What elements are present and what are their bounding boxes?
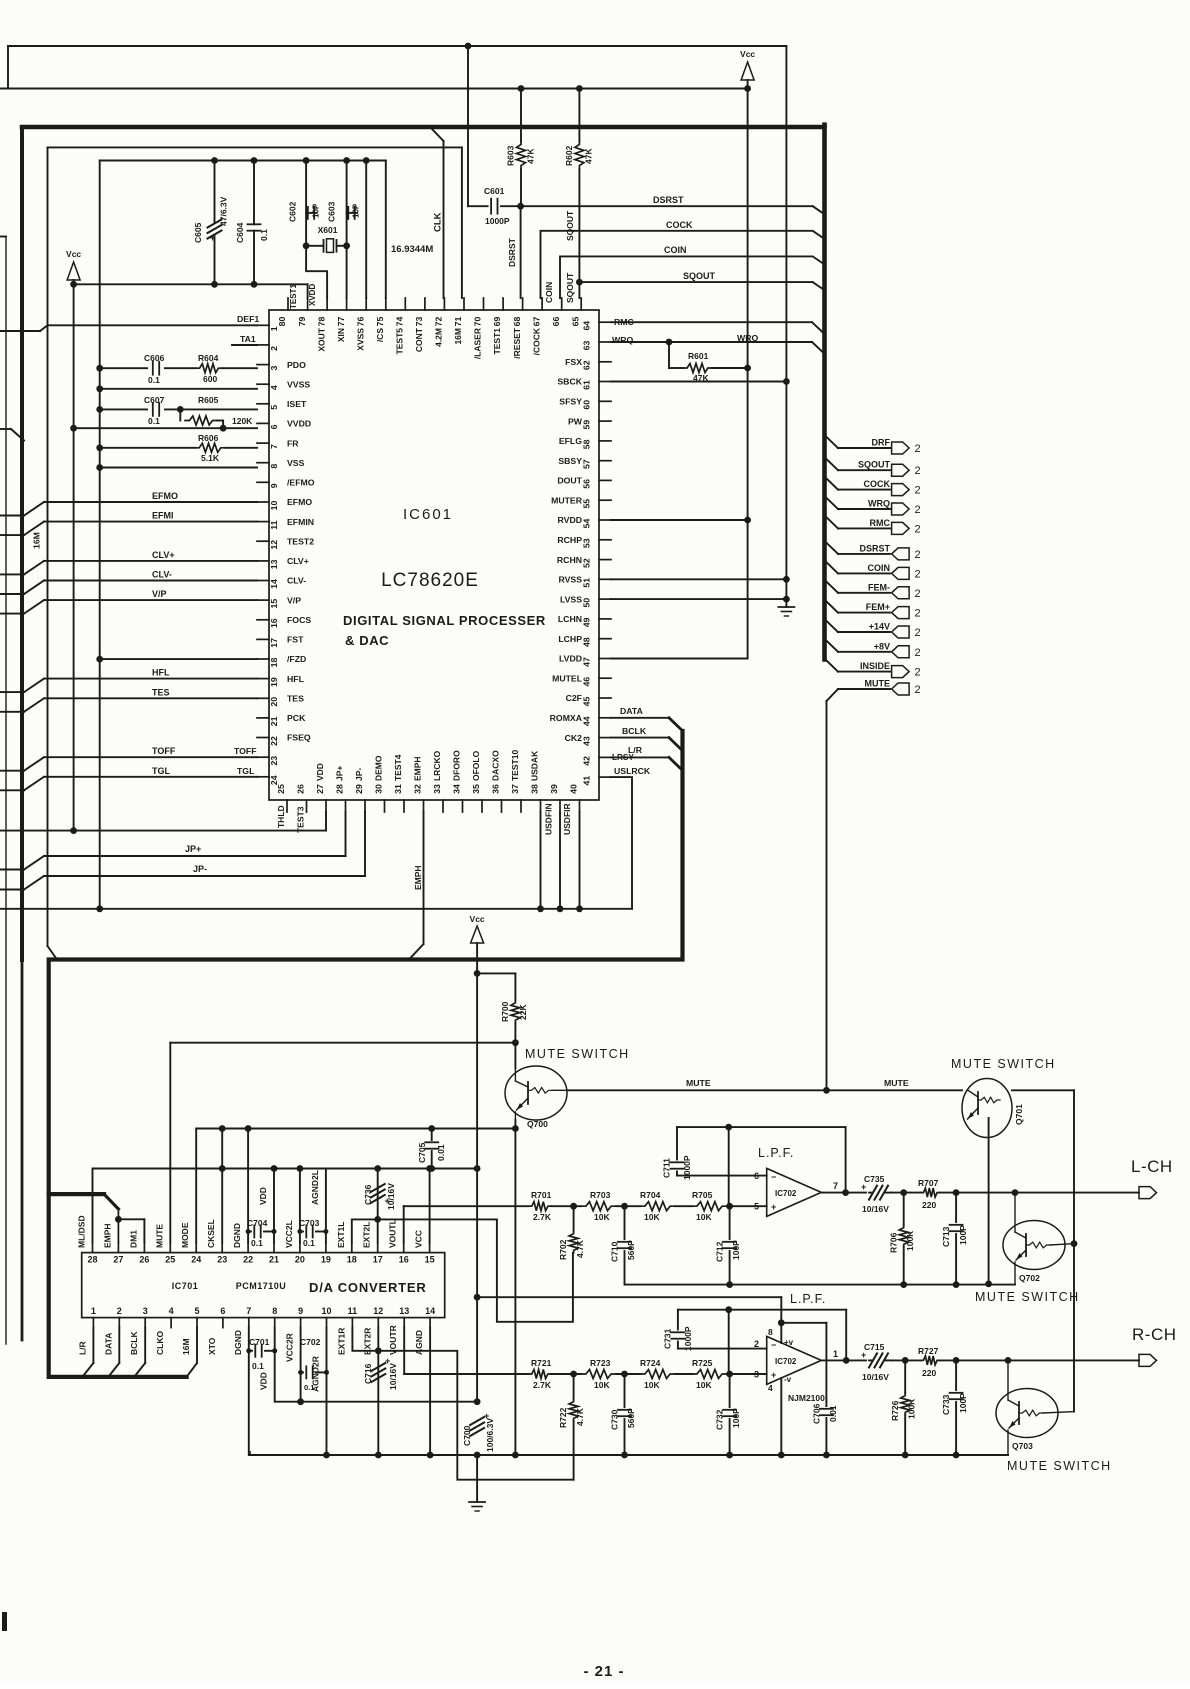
svg-text:7: 7 bbox=[833, 1181, 838, 1191]
pin 46 IC601 right bbox=[599, 677, 611, 679]
pin 49 IC601 right bbox=[599, 618, 611, 620]
svg-text:CKSEL: CKSEL bbox=[206, 1219, 216, 1248]
svg-text:WRQ: WRQ bbox=[868, 499, 890, 509]
svg-text:SQOUT: SQOUT bbox=[565, 210, 575, 241]
svg-text:VCC: VCC bbox=[414, 1230, 424, 1248]
wire pin8 riser VDD bbox=[274, 1328, 276, 1351]
svg-text:+: + bbox=[861, 1350, 866, 1360]
capacitor C732 100P bbox=[729, 1374, 731, 1407]
capacitor C701 0.1 bbox=[249, 1350, 252, 1352]
svg-text:220: 220 bbox=[922, 1368, 936, 1378]
svg-text:72: 72 bbox=[434, 317, 444, 327]
svg-text:2: 2 bbox=[915, 588, 921, 600]
node LVSS junction bbox=[783, 596, 790, 603]
wire MUTE line right bbox=[567, 1089, 962, 1091]
svg-text:CLKO: CLKO bbox=[155, 1331, 165, 1355]
node C713 junction bbox=[953, 1189, 960, 1196]
pin 22 IC701 top bbox=[247, 1243, 249, 1253]
pin 14 IC601 left bbox=[257, 580, 269, 582]
wire Q700 emitter ground drop bbox=[514, 1120, 516, 1455]
svg-text:70: 70 bbox=[473, 317, 483, 327]
resistor R725 10K bbox=[692, 1370, 727, 1379]
node pin39 rail bbox=[557, 905, 564, 912]
wire DSRST line bbox=[521, 205, 813, 207]
svg-text:76: 76 bbox=[355, 317, 365, 327]
svg-text:FEM-: FEM- bbox=[868, 582, 890, 592]
svg-text:3: 3 bbox=[269, 366, 279, 371]
svg-text:IC702: IC702 bbox=[775, 1189, 797, 1198]
svg-text:39: 39 bbox=[549, 784, 559, 794]
pin 17 IC701 top bbox=[377, 1243, 379, 1253]
svg-text:1: 1 bbox=[91, 1306, 96, 1316]
svg-text:L/R: L/R bbox=[628, 745, 643, 755]
node SBCK junction bbox=[783, 378, 790, 385]
node railB Q700 bbox=[512, 1125, 519, 1132]
svg-text:0.01: 0.01 bbox=[436, 1144, 446, 1161]
pin 68 IC601 top bbox=[522, 298, 524, 310]
svg-text:52: 52 bbox=[582, 558, 592, 568]
transistor Q700 bbox=[505, 1066, 567, 1120]
svg-text:C712: C712 bbox=[715, 1241, 725, 1262]
svg-text:R605: R605 bbox=[198, 395, 219, 405]
svg-text:16: 16 bbox=[269, 618, 279, 628]
svg-text:71: 71 bbox=[453, 317, 463, 327]
svg-text:10K: 10K bbox=[594, 1212, 610, 1222]
svg-text:10K: 10K bbox=[644, 1212, 660, 1222]
pin 25 IC601 bottom bbox=[286, 800, 288, 812]
connector FEM+ 2 bbox=[892, 607, 910, 619]
svg-text:C716: C716 bbox=[363, 1363, 373, 1384]
pin 43 IC601 right bbox=[599, 737, 611, 739]
wire pin24 riser railB bbox=[196, 1129, 515, 1243]
node AGND pin10 bbox=[323, 1452, 330, 1459]
svg-text:THLD: THLD bbox=[276, 805, 286, 828]
svg-text:R603: R603 bbox=[506, 145, 516, 166]
wire connector COCK bbox=[825, 477, 839, 490]
wire left bus x100 vertical bbox=[99, 161, 101, 909]
svg-text:C603: C603 bbox=[327, 201, 337, 222]
svg-text:ML/DSD: ML/DSD bbox=[77, 1215, 87, 1248]
pin 64 IC601 right bbox=[599, 321, 611, 323]
pin 12 IC601 left bbox=[257, 540, 269, 542]
svg-text:RCHP: RCHP bbox=[557, 535, 582, 545]
svg-text:Vcc: Vcc bbox=[470, 914, 485, 924]
svg-text:CK2: CK2 bbox=[565, 733, 583, 743]
svg-text:C2F: C2F bbox=[566, 693, 582, 703]
svg-text:RMC: RMC bbox=[870, 518, 891, 528]
wire CLV+ from left bbox=[0, 573, 24, 575]
pin 15 IC601 left bbox=[257, 599, 269, 601]
svg-text:10: 10 bbox=[269, 501, 279, 511]
wire pin28 riser rail bbox=[93, 1169, 478, 1243]
svg-text:C715: C715 bbox=[864, 1342, 885, 1352]
svg-text:73: 73 bbox=[414, 317, 424, 327]
pin 10 IC601 left bbox=[257, 501, 269, 503]
pin 29 IC601 bottom bbox=[364, 800, 366, 812]
pin 39 IC601 bottom bbox=[559, 800, 561, 812]
svg-text:USDAK: USDAK bbox=[530, 750, 540, 781]
svg-text:PDO: PDO bbox=[287, 360, 306, 370]
svg-text:7: 7 bbox=[269, 444, 279, 449]
node AGND C732 bbox=[726, 1452, 733, 1459]
wire pin12 riser bbox=[377, 1328, 379, 1351]
node C730 junction bbox=[621, 1371, 628, 1378]
svg-text:/EFMO: /EFMO bbox=[287, 478, 315, 488]
svg-text:DM1: DM1 bbox=[128, 1230, 138, 1248]
wire pin20 riser bbox=[299, 1169, 301, 1243]
svg-text:DRF: DRF bbox=[872, 438, 891, 448]
resistor R706 100K bbox=[903, 1193, 905, 1225]
svg-text:1000P: 1000P bbox=[683, 1326, 693, 1351]
svg-text:EFLG: EFLG bbox=[559, 436, 582, 446]
wire EFMO from left bbox=[0, 515, 24, 517]
resistor R721 2.7K bbox=[529, 1370, 551, 1379]
svg-text:80: 80 bbox=[277, 317, 287, 327]
node cap rail C604 bbox=[251, 157, 258, 164]
wire connector WRQ bbox=[825, 496, 839, 509]
pin 36 IC601 bottom bbox=[501, 800, 503, 812]
svg-text:13: 13 bbox=[269, 559, 279, 569]
svg-text:DGND: DGND bbox=[233, 1330, 243, 1355]
svg-text:DEF1: DEF1 bbox=[237, 314, 259, 324]
svg-text:63: 63 bbox=[582, 341, 592, 351]
svg-text:CLV+: CLV+ bbox=[152, 550, 175, 560]
node top rail junction bbox=[465, 43, 472, 50]
pin 3 IC701 bottom bbox=[144, 1318, 146, 1328]
svg-text:Q702: Q702 bbox=[1019, 1273, 1040, 1283]
svg-text:2: 2 bbox=[915, 627, 921, 639]
svg-text:R726: R726 bbox=[890, 1400, 900, 1421]
node pin23 rail junction bbox=[219, 1165, 226, 1172]
svg-text:C733: C733 bbox=[941, 1394, 951, 1415]
node RVDD Vcc bbox=[744, 517, 751, 524]
svg-text:38: 38 bbox=[530, 784, 540, 794]
wire connector SQOUT bbox=[825, 457, 839, 470]
node pin9 VDD rail bbox=[297, 1398, 304, 1405]
svg-text:2.7K: 2.7K bbox=[533, 1380, 552, 1390]
node R601 Vcc bbox=[744, 365, 751, 372]
pin 11 IC701 bottom bbox=[351, 1318, 353, 1328]
svg-text:58: 58 bbox=[582, 439, 592, 449]
wire xtal to pin78 jog bbox=[306, 246, 327, 298]
svg-text:C705: C705 bbox=[417, 1142, 427, 1163]
connector DRF 2 bbox=[892, 442, 910, 454]
wire thick data bus bbox=[49, 731, 683, 1377]
svg-text:BCLK: BCLK bbox=[129, 1331, 139, 1355]
svg-text:0.1: 0.1 bbox=[252, 1361, 264, 1371]
svg-text:+8V: +8V bbox=[874, 641, 890, 651]
svg-text:9: 9 bbox=[298, 1306, 303, 1316]
svg-text:TES: TES bbox=[287, 694, 304, 704]
svg-text:DFORO: DFORO bbox=[452, 750, 462, 781]
svg-text:2: 2 bbox=[915, 608, 921, 620]
svg-text:47K: 47K bbox=[584, 148, 594, 164]
node pin38 rail bbox=[537, 905, 544, 912]
svg-text:MUTE: MUTE bbox=[686, 1078, 711, 1088]
svg-text:16M: 16M bbox=[453, 328, 463, 345]
svg-text:/RESET: /RESET bbox=[512, 327, 522, 359]
pin 47 IC601 right bbox=[599, 658, 611, 660]
node SQOUT junction bbox=[576, 279, 583, 286]
svg-text:2: 2 bbox=[915, 485, 921, 497]
svg-text:/FZD: /FZD bbox=[287, 654, 306, 664]
node R722 junction bbox=[570, 1371, 577, 1378]
svg-text:40: 40 bbox=[569, 784, 579, 794]
ground IC601 analog bbox=[785, 599, 787, 607]
node EXT2R junction bbox=[375, 1347, 382, 1354]
svg-text:64: 64 bbox=[582, 321, 592, 331]
pin 59 IC601 right bbox=[599, 420, 611, 422]
capacitor C713 100P bbox=[955, 1193, 957, 1222]
resistor R724 10K bbox=[640, 1370, 675, 1379]
pin 37 IC601 bottom bbox=[520, 800, 522, 812]
svg-text:−: − bbox=[771, 1340, 776, 1350]
pin 41 IC601 right bbox=[599, 776, 611, 778]
svg-text:18: 18 bbox=[269, 658, 279, 668]
pin 50 IC601 right bbox=[599, 598, 611, 600]
svg-text:DGND: DGND bbox=[232, 1223, 242, 1248]
node MUTE connector junction bbox=[823, 1087, 830, 1094]
pin 18 IC701 top bbox=[351, 1243, 353, 1253]
svg-text:59: 59 bbox=[582, 420, 592, 430]
node rail1 C712 bbox=[726, 1281, 733, 1288]
pin 54 IC601 right bbox=[599, 519, 611, 521]
wire pin19 riser bbox=[325, 1169, 327, 1243]
node VVSS bus bbox=[96, 385, 103, 392]
svg-text:V/P: V/P bbox=[287, 595, 301, 605]
svg-text:10K: 10K bbox=[594, 1380, 610, 1390]
svg-text:10/16V: 10/16V bbox=[386, 1183, 396, 1210]
svg-text:TEST4: TEST4 bbox=[393, 754, 403, 781]
svg-text:USLRCK: USLRCK bbox=[614, 766, 651, 776]
svg-text:LCHP: LCHP bbox=[558, 634, 582, 644]
wire EMPH drop from pin32 bbox=[423, 812, 425, 944]
svg-text:R725: R725 bbox=[692, 1358, 713, 1368]
svg-text:COIN: COIN bbox=[664, 245, 687, 255]
capacitor C731 1000P bbox=[677, 1310, 679, 1330]
svg-text:25: 25 bbox=[276, 784, 286, 794]
pin 77 IC601 top bbox=[346, 298, 348, 310]
svg-text:& DAC: & DAC bbox=[345, 633, 389, 648]
wire pin10 riser bbox=[326, 1328, 328, 1455]
svg-text:FOCS: FOCS bbox=[287, 615, 311, 625]
svg-text:21: 21 bbox=[269, 716, 279, 726]
svg-text:18: 18 bbox=[347, 1255, 357, 1265]
wire xtal cap rail bbox=[100, 160, 386, 162]
svg-text:0.1: 0.1 bbox=[259, 229, 269, 241]
pin 18 IC601 left bbox=[257, 658, 269, 660]
svg-text:4.7K: 4.7K bbox=[575, 1239, 585, 1258]
svg-text:WRQ: WRQ bbox=[737, 333, 758, 343]
svg-text:78: 78 bbox=[316, 317, 326, 327]
node Q702 base junction bbox=[1071, 1240, 1078, 1247]
svg-text:DEMO: DEMO bbox=[374, 755, 384, 781]
svg-text:2: 2 bbox=[915, 549, 921, 561]
pin 60 IC601 right bbox=[599, 400, 611, 402]
svg-text:R727: R727 bbox=[918, 1346, 939, 1356]
wire C735 to R707 bbox=[891, 1192, 921, 1194]
wire SBCK line bbox=[611, 381, 786, 383]
wire PDO line bbox=[100, 367, 147, 369]
node AGND C700 bbox=[474, 1452, 481, 1459]
svg-text:120K: 120K bbox=[232, 416, 253, 426]
wire USLRCK riser pin41 bbox=[611, 777, 632, 909]
svg-text:MODE: MODE bbox=[180, 1222, 190, 1248]
node C601 R603 junction bbox=[517, 203, 524, 210]
wire DSRST drop to pin68 bbox=[520, 206, 522, 298]
svg-text:16M: 16M bbox=[32, 532, 42, 549]
svg-text:100/6.3V: 100/6.3V bbox=[485, 1418, 495, 1452]
wire TGL from left bbox=[0, 789, 24, 791]
pin 17 IC601 left bbox=[257, 638, 269, 640]
svg-text:EXT2L: EXT2L bbox=[362, 1222, 372, 1248]
svg-text:56: 56 bbox=[582, 479, 592, 489]
connector SQOUT 2 bbox=[892, 464, 910, 476]
capacitor C604 bbox=[253, 161, 255, 225]
wire ISET line bbox=[100, 408, 147, 410]
svg-text:74: 74 bbox=[395, 317, 405, 327]
svg-text:R724: R724 bbox=[640, 1358, 661, 1368]
node Vcc pin8 line bbox=[474, 1294, 481, 1301]
capacitor C700 100/6.3V bbox=[470, 1417, 484, 1425]
svg-text:IC702: IC702 bbox=[775, 1357, 797, 1366]
svg-text:2: 2 bbox=[269, 346, 279, 351]
node rail1 C713 bbox=[953, 1281, 960, 1288]
svg-text:IC601: IC601 bbox=[403, 506, 453, 523]
svg-text:19: 19 bbox=[321, 1255, 331, 1265]
svg-text:27: 27 bbox=[113, 1255, 123, 1265]
svg-text:R701: R701 bbox=[531, 1190, 552, 1200]
wire VSS line bbox=[100, 467, 257, 469]
svg-text:2: 2 bbox=[915, 647, 921, 659]
svg-text:1000P: 1000P bbox=[682, 1155, 692, 1180]
svg-text:TA1: TA1 bbox=[240, 334, 256, 344]
svg-text:R723: R723 bbox=[590, 1358, 611, 1368]
node R602 top bbox=[576, 85, 583, 92]
svg-text:Q700: Q700 bbox=[527, 1119, 548, 1129]
wire C706 link bbox=[781, 1322, 826, 1324]
svg-text:100P: 100P bbox=[731, 1240, 741, 1260]
wire Vcc vertical right bbox=[747, 89, 749, 659]
connector WRQ 2 bbox=[892, 503, 910, 515]
svg-text:SQOUT: SQOUT bbox=[565, 272, 575, 303]
svg-text:VDD: VDD bbox=[315, 763, 325, 781]
pin 24 IC601 left bbox=[257, 776, 269, 778]
svg-text:PW: PW bbox=[568, 416, 583, 426]
wire rail to pin75 bbox=[385, 161, 387, 299]
wire vertical from top rail to C601 bbox=[467, 46, 469, 206]
connector R-CH output bbox=[1139, 1354, 1157, 1366]
svg-text:10P: 10P bbox=[352, 203, 361, 218]
svg-text:XVDD: XVDD bbox=[308, 284, 317, 306]
wire connector RMC bbox=[825, 515, 839, 528]
pin 48 IC601 right bbox=[599, 638, 611, 640]
svg-text:10K: 10K bbox=[644, 1380, 660, 1390]
node Vcc rail bottom bbox=[70, 827, 77, 834]
svg-text:COCK: COCK bbox=[864, 479, 891, 489]
capacitor C730 560P bbox=[624, 1374, 626, 1407]
svg-text:31: 31 bbox=[393, 784, 403, 794]
svg-text:4: 4 bbox=[768, 1383, 773, 1393]
svg-text:EMPH: EMPH bbox=[102, 1223, 112, 1248]
wire EFMI from left bbox=[0, 534, 24, 536]
wire pin7 riser bbox=[248, 1328, 250, 1455]
capacitor C603 bbox=[347, 212, 357, 214]
wire WRQ line bbox=[611, 341, 812, 343]
svg-text:COIN: COIN bbox=[868, 563, 891, 573]
svg-text:36: 36 bbox=[491, 784, 501, 794]
pin 58 IC601 right bbox=[599, 440, 611, 442]
node pin21 rail junction bbox=[271, 1165, 278, 1172]
svg-text:32: 32 bbox=[413, 784, 423, 794]
svg-text:EFMI: EFMI bbox=[152, 511, 174, 521]
svg-text:15: 15 bbox=[425, 1255, 435, 1265]
pin 73 IC601 top bbox=[424, 298, 426, 310]
node R605 VVDD junction bbox=[220, 425, 227, 432]
svg-text:+v: +v bbox=[784, 1338, 794, 1347]
svg-text:MUTE SWITCH: MUTE SWITCH bbox=[975, 1290, 1080, 1304]
svg-text:V/P: V/P bbox=[152, 589, 167, 599]
svg-text:22K: 22K bbox=[518, 1004, 528, 1020]
svg-text:HFL: HFL bbox=[152, 668, 170, 678]
svg-text:60: 60 bbox=[582, 400, 592, 410]
svg-text:MUTE SWITCH: MUTE SWITCH bbox=[1007, 1459, 1112, 1473]
pin 57 IC601 right bbox=[599, 460, 611, 462]
svg-text:2: 2 bbox=[915, 667, 921, 679]
node FR bus bbox=[96, 444, 103, 451]
wire 16M riser to pin71 bbox=[461, 147, 463, 298]
node PDO bus bbox=[96, 365, 103, 372]
svg-text:VCC2L: VCC2L bbox=[284, 1220, 294, 1248]
svg-text:17: 17 bbox=[269, 638, 279, 648]
pin 35 IC601 bottom bbox=[481, 800, 483, 812]
svg-text:R601: R601 bbox=[688, 351, 709, 361]
node AGND C706 bbox=[823, 1452, 830, 1459]
connector COIN 2 bbox=[892, 567, 910, 579]
svg-text:20: 20 bbox=[269, 697, 279, 707]
wire left margin line bbox=[0, 236, 6, 238]
svg-text:11: 11 bbox=[269, 520, 279, 529]
svg-text:16M: 16M bbox=[181, 1338, 191, 1355]
wire V/P from left bbox=[0, 613, 24, 615]
capacitor C711 1000P bbox=[676, 1127, 678, 1159]
wire VVDD line bbox=[74, 427, 257, 429]
svg-text:100P: 100P bbox=[731, 1408, 741, 1428]
svg-text:1000P: 1000P bbox=[485, 216, 510, 226]
wire connector DSRST bbox=[825, 541, 839, 554]
pin 67 IC601 top bbox=[541, 298, 543, 310]
wire C602 drop bbox=[305, 161, 307, 246]
wire HFL from left bbox=[0, 691, 24, 693]
wire connector INSIDE bbox=[825, 659, 839, 672]
pin 13 IC701 bottom bbox=[403, 1318, 405, 1328]
svg-text:57: 57 bbox=[582, 459, 592, 469]
svg-text:4.7K: 4.7K bbox=[575, 1407, 585, 1426]
svg-text:79: 79 bbox=[297, 317, 307, 327]
wire FZD line bbox=[100, 658, 257, 660]
wire Vcc top rail 2 bbox=[0, 88, 748, 90]
pin 20 IC701 top bbox=[299, 1243, 301, 1253]
node cap rail C602 bbox=[303, 157, 310, 164]
svg-text:17: 17 bbox=[373, 1255, 383, 1265]
pin 12 IC701 bottom bbox=[377, 1318, 379, 1328]
op-amp ignore: IC601 body bbox=[269, 310, 599, 800]
node feedback tap upper bbox=[725, 1124, 732, 1131]
svg-text:R707: R707 bbox=[918, 1178, 939, 1188]
svg-text:DSRST: DSRST bbox=[653, 195, 684, 205]
wire Q703 emitter to rail bbox=[1007, 1454, 1009, 1456]
wire R705 to op-amp bbox=[727, 1205, 767, 1207]
